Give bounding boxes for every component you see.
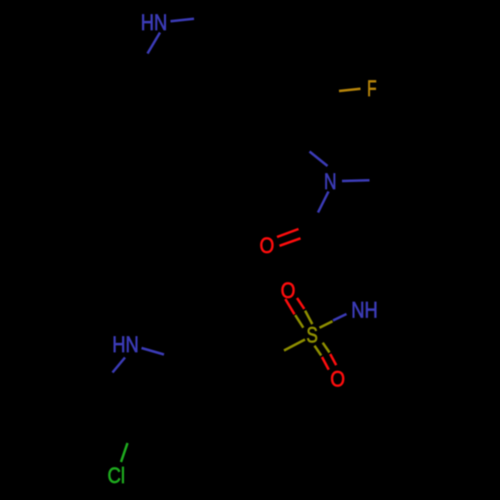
svg-text:S: S xyxy=(306,323,318,348)
svg-text:F: F xyxy=(367,76,377,101)
wire N-C ring right half-bond xyxy=(342,179,370,182)
wire S=O lower right line red half xyxy=(330,354,336,365)
wire S=O lower right line olive half xyxy=(323,343,330,353)
wire S=O lower left line red half xyxy=(322,357,329,370)
wire C=O carbonyl double bond upper red half xyxy=(277,229,299,237)
wire N-C bottom indole NH right half-bond xyxy=(142,348,165,355)
svg-text:O: O xyxy=(260,233,275,258)
svg-text:Cl: Cl xyxy=(107,463,125,488)
wire C-Cl green half-bond xyxy=(121,443,128,462)
svg-text:O: O xyxy=(330,367,345,392)
wire S-C olive half xyxy=(284,340,305,351)
wire S=O upper left line olive half xyxy=(295,315,303,328)
wire S-N blue half xyxy=(333,314,347,321)
wire N-C ring up-left half-bond xyxy=(310,152,328,167)
wire C-F half-bond xyxy=(339,89,361,91)
wire N-C bottom indole NH down-left half-bond xyxy=(113,358,126,373)
wire N-C top indoline NH right half-bond xyxy=(171,19,195,22)
wire S-N olive half xyxy=(320,321,333,327)
wire S=O upper left line red half xyxy=(285,299,294,314)
wire N-C ring down-left half-bond xyxy=(318,192,329,213)
svg-text:N: N xyxy=(324,169,337,194)
wire S=O upper right line red half xyxy=(297,298,304,309)
wire S=O upper right line olive half xyxy=(305,311,312,325)
svg-text:NH: NH xyxy=(351,297,378,322)
wire C=O carbonyl double bond lower red half xyxy=(280,238,301,246)
svg-text:HN: HN xyxy=(112,332,139,357)
svg-text:O: O xyxy=(281,278,296,303)
svg-text:HN: HN xyxy=(141,10,168,35)
wire S=O lower left line olive half xyxy=(315,346,322,356)
wire N-C top indoline NH down-left half-bond xyxy=(148,33,161,54)
